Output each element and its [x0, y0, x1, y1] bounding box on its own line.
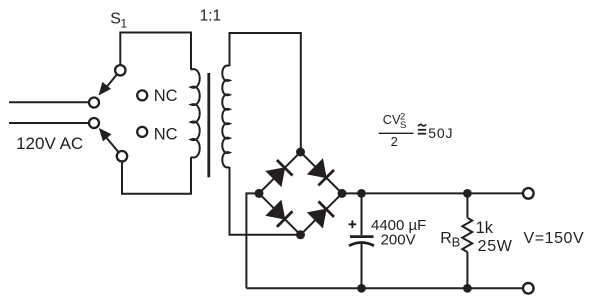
svg-text:R: R — [440, 230, 452, 247]
svg-text:NC: NC — [154, 87, 178, 105]
svg-text:NC: NC — [154, 125, 178, 143]
svg-text:S: S — [110, 11, 121, 28]
svg-text:V=150V: V=150V — [524, 230, 585, 247]
svg-text:25W: 25W — [478, 238, 513, 255]
svg-text:CV: CV — [383, 112, 401, 127]
svg-text:B: B — [452, 234, 461, 249]
svg-text:200V: 200V — [381, 232, 416, 249]
svg-text:120V AC: 120V AC — [16, 134, 83, 153]
svg-text:S: S — [400, 120, 406, 131]
svg-text:2: 2 — [391, 134, 398, 149]
svg-text:1k: 1k — [476, 219, 494, 237]
svg-text:50J: 50J — [428, 125, 453, 141]
svg-text:1: 1 — [121, 17, 128, 31]
svg-text:1:1: 1:1 — [200, 7, 222, 24]
